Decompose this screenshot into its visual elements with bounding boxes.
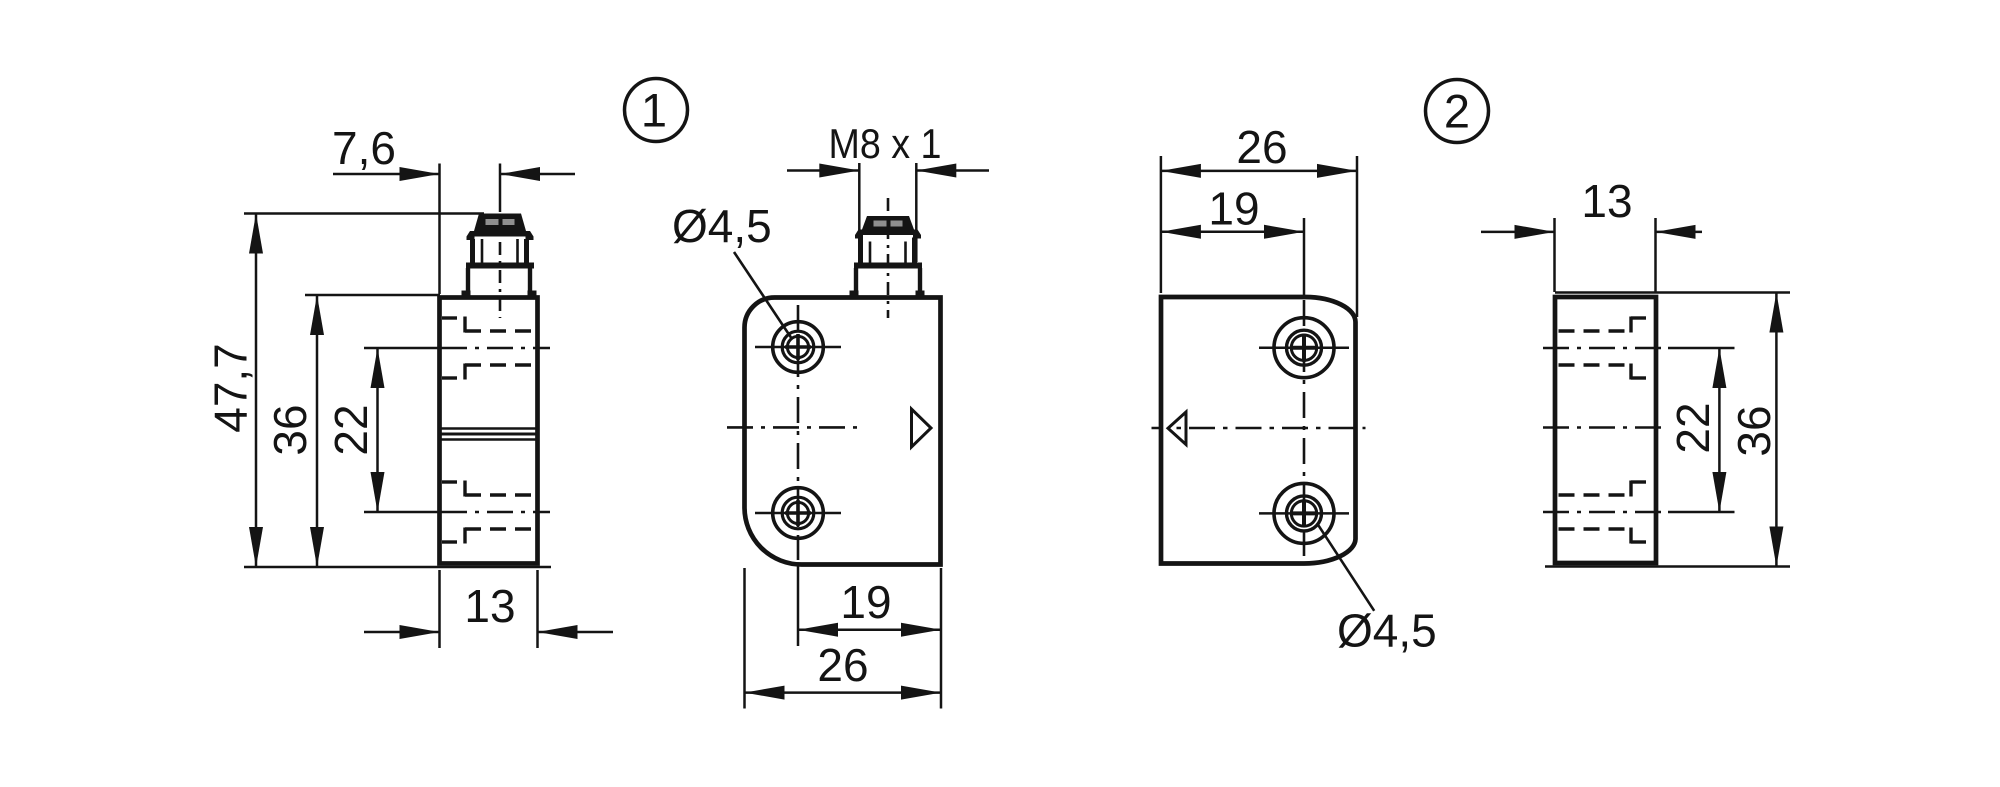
front cap slot right bbox=[891, 221, 903, 227]
arrow 36 down (item2) bbox=[1769, 527, 1783, 567]
balloon circle 1 bbox=[625, 79, 688, 142]
bottom extension line (36) bbox=[1545, 565, 1790, 568]
dim line 22 (item2) bbox=[1718, 348, 1721, 512]
nut cap slot left bbox=[486, 219, 499, 225]
hidden element upper (item2): step right low bbox=[1631, 376, 1654, 379]
dim line 7,6 left tail bbox=[333, 173, 440, 176]
dim line 36 (item2) bbox=[1775, 293, 1778, 567]
arrow 13 right bbox=[538, 625, 578, 639]
hex facet right bbox=[516, 239, 519, 264]
front connector centerline bbox=[887, 198, 890, 318]
mid centerline horizontal (item2) bbox=[1152, 427, 1366, 430]
mounting hole lower: outer bbox=[773, 488, 824, 539]
arrow 36 up (item2) bbox=[1769, 293, 1783, 333]
sensing face triangle (front, right) bbox=[912, 409, 932, 447]
front hex facet right bbox=[904, 242, 907, 264]
svg-text:36: 36 bbox=[1728, 405, 1780, 456]
connector collar bbox=[466, 263, 534, 269]
centerline lower element bbox=[441, 511, 550, 514]
hidden element lower: inner top bbox=[465, 493, 536, 496]
front collar bbox=[854, 263, 922, 269]
svg-text:26: 26 bbox=[1236, 121, 1287, 173]
hidden element lower: step vertical bbox=[463, 481, 466, 497]
dim 22 lower extension (item2) bbox=[1668, 511, 1735, 514]
nut cap slot right bbox=[503, 219, 515, 225]
svg-text:47,7: 47,7 bbox=[205, 343, 257, 433]
hidden element upper (item2): step vertical low bbox=[1629, 364, 1632, 380]
dim 19 hole extension (item2) bbox=[1303, 218, 1306, 295]
dim 19/26 right extension (front) bbox=[940, 568, 943, 709]
mid centerline (item2 side) bbox=[1543, 426, 1668, 429]
hidden element lower: step left bbox=[442, 480, 465, 483]
hidden element lower (item2): step vertical bbox=[1629, 481, 1632, 497]
hole lower tick bbox=[755, 512, 841, 515]
dim 19/26 left extension (front) bbox=[743, 568, 746, 709]
arrow 36 down bbox=[310, 527, 324, 567]
hidden element lower (item2): step right low bbox=[1631, 540, 1654, 543]
front hex left side bbox=[858, 238, 863, 264]
front hex facet left bbox=[869, 242, 872, 264]
body outline front view bbox=[745, 298, 941, 565]
arrow 13 left (item2) bbox=[1515, 225, 1555, 239]
hidden element lower (item2): inner bottom bbox=[1559, 527, 1632, 530]
dim 22 upper extension line bbox=[364, 347, 441, 350]
arrow 22 up bbox=[371, 348, 385, 388]
housing joint line 3 bbox=[441, 438, 536, 441]
centerline upper element bbox=[441, 347, 550, 350]
arrow M8 right bbox=[916, 164, 956, 178]
hidden element lower: inner bottom bbox=[465, 527, 536, 530]
dim line 13 left tail bbox=[364, 631, 440, 634]
dim line 26 (item2) bbox=[1161, 170, 1357, 173]
connector base right bbox=[528, 268, 532, 296]
arrow 22 down bbox=[371, 472, 385, 512]
front base left bbox=[854, 268, 858, 295]
hidden element upper: step left bbox=[442, 316, 465, 319]
hidden element lower: step left low bbox=[442, 540, 465, 543]
body outline item 2 side bbox=[1555, 297, 1656, 563]
dim line 13 right tail (item2) bbox=[1656, 231, 1703, 234]
arrow 7,6 left bbox=[400, 167, 440, 181]
dim 22 upper extension (item2) bbox=[1668, 347, 1735, 350]
dim line 26 (front) bbox=[745, 691, 942, 694]
arrow 13 right (item2) bbox=[1656, 225, 1696, 239]
connector base foot right bbox=[528, 291, 537, 298]
front nut flare band bbox=[855, 230, 921, 236]
hidden element lower (item2): inner top bbox=[1559, 493, 1632, 496]
centerline lower (item2 side) bbox=[1543, 511, 1668, 514]
balloon circle 2 bbox=[1426, 80, 1489, 143]
hole centerline vertical (item2) bbox=[1303, 300, 1306, 558]
dim line 36 bbox=[316, 295, 319, 567]
arrow 13 left bbox=[400, 625, 440, 639]
mounting hole lower: middle bbox=[782, 497, 814, 529]
dim 47,7 top extension line bbox=[244, 212, 484, 215]
arrow 19 right bbox=[901, 623, 941, 637]
item2 hole upper tick bbox=[1259, 346, 1349, 349]
svg-text:22: 22 bbox=[325, 404, 377, 455]
dim M8 right extension bbox=[915, 163, 918, 262]
front cap slot left bbox=[874, 221, 887, 227]
mounting hole lower: inner bbox=[787, 502, 808, 523]
dim M8 left extension bbox=[858, 163, 861, 262]
hole lower cross bbox=[785, 500, 811, 526]
dim line 22 bbox=[376, 348, 379, 512]
item2 hole lower: outer bbox=[1274, 483, 1334, 543]
dim 13 right extension (item2) bbox=[1654, 218, 1657, 292]
hidden element upper: inner top bbox=[465, 329, 536, 332]
svg-text:19: 19 bbox=[840, 576, 891, 628]
hex nut left side bbox=[470, 239, 475, 264]
svg-text:2: 2 bbox=[1444, 85, 1470, 138]
arrow 22 down (item2) bbox=[1712, 472, 1726, 512]
item2 hole lower: inner bbox=[1291, 501, 1316, 526]
dim 26/19 left extension (item2) bbox=[1160, 156, 1163, 293]
svg-text:36: 36 bbox=[264, 404, 316, 455]
dim 19 center extension (front) bbox=[797, 566, 800, 646]
arrow 47,7 up bbox=[249, 214, 263, 254]
dim line 19 (front) bbox=[798, 628, 941, 631]
arrow 19 left (item2) bbox=[1161, 225, 1201, 239]
svg-text:M8 x 1: M8 x 1 bbox=[829, 120, 942, 167]
mid centerline horizontal (front) bbox=[727, 426, 860, 429]
hidden element upper: inner bottom bbox=[465, 363, 536, 366]
hidden element lower: step vertical low bbox=[463, 528, 466, 544]
dim 13 left extension (item2) bbox=[1553, 218, 1556, 292]
hidden element upper: step vertical bbox=[463, 317, 466, 333]
nut flare tab right bbox=[526, 237, 534, 241]
hidden element upper: step left low bbox=[442, 376, 465, 379]
item2 hole lower tick bbox=[1259, 512, 1349, 515]
item2 hole lower cross bbox=[1290, 499, 1318, 527]
item2 hole upper: middle bbox=[1287, 330, 1322, 365]
hidden element upper (item2): step vertical bbox=[1629, 317, 1632, 333]
dim 7,6 left extension line bbox=[438, 164, 441, 295]
dim 47,7 / 36 bottom extension line bbox=[244, 566, 551, 569]
svg-text:7,6: 7,6 bbox=[332, 122, 396, 174]
hole centerline vertical (front) bbox=[797, 305, 800, 560]
mounting hole upper: middle bbox=[782, 331, 814, 363]
arrow 26 right bbox=[901, 686, 941, 700]
front nut flare tab right bbox=[913, 235, 921, 239]
dim 13 left extension line bbox=[438, 570, 441, 648]
svg-text:Ø4,5: Ø4,5 bbox=[672, 200, 772, 252]
arrow 36 up bbox=[310, 295, 324, 335]
hidden element lower (item2): step right bbox=[1631, 480, 1654, 483]
dim line 19 (item2) bbox=[1161, 231, 1304, 234]
item2 hole upper cross bbox=[1290, 334, 1318, 362]
dim line 13 right tail bbox=[538, 631, 614, 634]
hex facet left bbox=[481, 239, 484, 264]
hole upper cross bbox=[785, 334, 811, 360]
svg-text:13: 13 bbox=[1581, 175, 1632, 227]
arrow 7,6 right bbox=[500, 167, 540, 181]
hidden element upper (item2): inner top bbox=[1559, 329, 1632, 332]
hex nut right side bbox=[524, 239, 529, 264]
sensing face triangle (item2, left) bbox=[1168, 412, 1186, 445]
connector base left bbox=[466, 268, 470, 296]
arrow 47,7 down bbox=[249, 527, 263, 567]
arrow M8 left bbox=[819, 164, 859, 178]
svg-text:26: 26 bbox=[817, 639, 868, 691]
svg-text:19: 19 bbox=[1208, 183, 1259, 235]
hidden element upper (item2): inner bottom bbox=[1559, 363, 1632, 366]
hidden element upper: step vertical low bbox=[463, 364, 466, 380]
hidden element upper (item2): step right bbox=[1631, 316, 1654, 319]
arrow 26 right (item2) bbox=[1317, 164, 1357, 178]
dim 13 right extension line bbox=[536, 570, 539, 648]
leader line diameter 4,5 (item2) bbox=[1317, 524, 1374, 611]
dim 7,6 right extension (connector centerline) bbox=[499, 164, 502, 213]
arrow 22 up (item2) bbox=[1712, 348, 1726, 388]
dim line M8 left tail bbox=[787, 169, 859, 172]
centerline upper (item2 side) bbox=[1543, 347, 1668, 350]
front nut flare tab left bbox=[855, 235, 863, 239]
arrow 19 left bbox=[798, 623, 838, 637]
dim 26 right extension (item2) bbox=[1356, 156, 1359, 317]
front base right bbox=[918, 268, 922, 295]
nut flare band bbox=[467, 231, 534, 237]
item2 hole upper: inner bbox=[1291, 335, 1316, 360]
svg-text:13: 13 bbox=[464, 580, 515, 632]
front base foot left bbox=[850, 291, 859, 298]
arrow 26 left bbox=[745, 686, 785, 700]
svg-text:1: 1 bbox=[641, 84, 667, 137]
arrow 26 left (item2) bbox=[1161, 164, 1201, 178]
hidden element lower (item2): step vertical low bbox=[1629, 528, 1632, 544]
dim line 13 left tail (item2) bbox=[1481, 231, 1555, 234]
svg-text:Ø4,5: Ø4,5 bbox=[1337, 605, 1437, 657]
svg-text:22: 22 bbox=[1667, 402, 1719, 453]
connector base foot left bbox=[462, 291, 471, 298]
housing joint line 1 bbox=[441, 427, 536, 430]
body outline item 2 front bbox=[1161, 297, 1356, 564]
top extension line (36) bbox=[1555, 291, 1790, 294]
connector centerline bbox=[499, 214, 502, 318]
M8 connector side: nut cap bbox=[474, 214, 526, 232]
dim 36 top extension line bbox=[305, 294, 440, 297]
dim line 7,6 right tail bbox=[500, 173, 575, 176]
mounting hole upper: outer bbox=[773, 322, 824, 373]
nut flare tab left bbox=[467, 237, 475, 241]
item2 hole upper: outer bbox=[1274, 318, 1334, 378]
arrow 19 right (item2) bbox=[1264, 225, 1304, 239]
front base foot right bbox=[916, 291, 925, 298]
mounting hole upper: inner bbox=[787, 336, 808, 357]
front hex right side bbox=[912, 238, 917, 264]
leader line diameter 4,5 bbox=[734, 252, 792, 339]
dim 22 lower extension line bbox=[364, 511, 441, 514]
dim line M8 right tail bbox=[916, 169, 989, 172]
hole upper tick bbox=[755, 346, 841, 349]
dim line 47,7 bbox=[255, 214, 258, 568]
housing joint line 2 bbox=[441, 433, 536, 436]
item2 hole lower: middle bbox=[1287, 496, 1322, 531]
M8 connector front: nut cap bbox=[862, 216, 914, 230]
body outline side view bbox=[440, 298, 538, 564]
